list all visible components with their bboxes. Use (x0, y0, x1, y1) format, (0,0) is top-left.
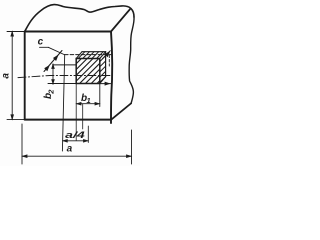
block top break line (freehand) (25, 5, 134, 32)
svg-text:2: 2 (47, 89, 56, 95)
c label underline (40, 46, 49, 48)
dimension b1 left arrow (76, 102, 82, 106)
bottom-left extension line (21, 124, 23, 164)
short dashed vertical near right edge (108, 55, 110, 66)
dimension b2 top arrow (51, 63, 55, 69)
top edge left extension line (7, 31, 25, 33)
svg-text:a: a (67, 144, 73, 155)
long vertical extension from dashed line to a/4 (62, 55, 64, 151)
dimension c oblique line (44, 51, 62, 72)
arrowhead at right end of bottom extension (105, 82, 111, 86)
reference line left of cube (b2 top) (53, 64, 77, 66)
b1 right extension (99, 84, 101, 107)
bottom-right extension line (131, 130, 133, 164)
dimension b2 line (52, 64, 54, 84)
dimension a (bottom) left arrow (21, 154, 27, 158)
svg-text:1: 1 (87, 96, 91, 105)
extension line x=82.7 below b1 (82, 104, 84, 129)
a/4 right extension (87, 126, 89, 143)
dimension a/4 line (63, 140, 89, 142)
cube front face hatching (76, 59, 100, 84)
block right back edge (freehand) (129, 17, 134, 103)
plate horizontal centerline (dash-dot) (18, 76, 111, 78)
cube receding bottom-right edge (100, 77, 106, 84)
block receding bottom-right edge (111, 103, 131, 120)
cube front face (76, 59, 100, 84)
oblique arrow at block right edge (top) (102, 51, 110, 59)
block receding top-right edge (111, 9, 130, 31)
dimension a (left) bottom arrow (10, 114, 14, 120)
svg-text:c: c (38, 37, 44, 48)
b1 left extension below cube (75, 84, 77, 141)
hidden dashed line at cube back-top level (65, 54, 112, 56)
block front face left edge (24, 32, 26, 120)
dimension a (bottom) line (22, 155, 132, 157)
dimension b1 line (76, 103, 100, 105)
dimension a/4 left arrow (62, 139, 68, 143)
svg-text:a: a (0, 73, 11, 79)
dimension a (left) top arrow (10, 30, 14, 36)
dimension a (bottom) right arrow (126, 154, 132, 158)
cube back right edge (105, 52, 107, 77)
block front face bottom edge (25, 119, 111, 121)
bottom edge left extension line (7, 119, 25, 121)
cube back top edge (82, 51, 106, 53)
cube bottom edge right extension (100, 83, 111, 85)
dimension a/4 right arrow (83, 139, 89, 143)
dimension a (left) line (11, 32, 13, 120)
cube top face hatching (78, 52, 103, 59)
block front face right edge (111, 32, 112, 124)
dimension b1 right arrow (95, 102, 101, 106)
cube bottom edge left extension (b2 bottom) (48, 83, 76, 85)
dimension c upper arrow (53, 54, 59, 61)
block front face top edge (25, 31, 111, 33)
cube receding top-left edge (76, 52, 82, 59)
dimension c lower arrow (44, 65, 50, 72)
svg-text:a/4: a/4 (65, 130, 86, 141)
c leader line (48, 47, 64, 54)
cube right face hatching (100, 56, 106, 83)
dimension b2 bottom arrow (51, 79, 55, 85)
label b2 (left, rotated) (43, 89, 56, 99)
cube receding top-right edge (100, 52, 106, 59)
